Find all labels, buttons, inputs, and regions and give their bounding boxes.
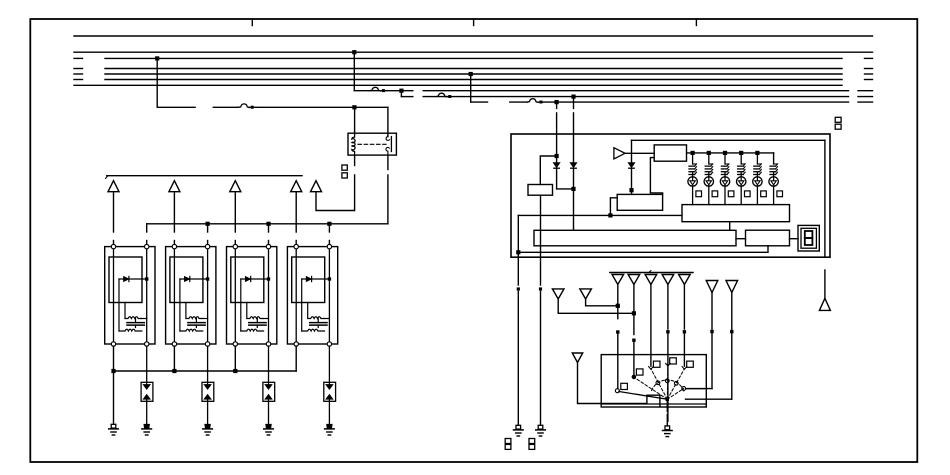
terminal square 4 (670, 358, 677, 364)
connector pair bottom 2 (529, 439, 535, 444)
junction on bus 8 (399, 89, 403, 93)
rail junction (266, 222, 270, 226)
page arrow 2 (628, 275, 640, 285)
junction below D3 (629, 188, 633, 192)
connector arrow 3 (230, 181, 241, 192)
page arrow T10 (572, 353, 582, 363)
left connector bar (106, 176, 108, 178)
relay feed wire seg a (157, 106, 195, 108)
zener box and ground 4 (324, 346, 336, 435)
rail to IC link (610, 198, 617, 216)
terminal square 3 (653, 361, 660, 367)
page arrow 1 (612, 275, 624, 285)
buffer output wire (625, 152, 654, 154)
bottom internal rail (518, 246, 768, 253)
T6 wire (558, 299, 634, 313)
switch ground (665, 426, 670, 430)
bus wire 10 seg c (543, 101, 849, 103)
R1 top wire (540, 156, 556, 185)
junction relay coil (352, 105, 356, 109)
module supply rail (147, 223, 388, 225)
zener box and ground 3 (263, 346, 275, 435)
R6 box (746, 230, 790, 246)
dashed ray (667, 369, 684, 400)
ground G1 (111, 424, 116, 428)
diode D1 (553, 163, 560, 168)
indicator lamp 2 (704, 153, 718, 205)
injector module 2 (166, 244, 216, 346)
bus wire 2 (74, 51, 873, 53)
dashed arc (652, 380, 685, 392)
relay right bottom lead (387, 155, 389, 169)
zener box and ground 1 (141, 346, 153, 435)
cluster ground wire 2 (540, 257, 542, 285)
arrow wire w3 (650, 285, 652, 367)
page arrow T9 (726, 281, 738, 293)
indicator lamp 5 (753, 153, 767, 205)
bus wire 5 right stub (865, 73, 873, 75)
connector arrow 5 (311, 181, 322, 192)
module 4 left pin wire (295, 346, 297, 371)
position contact (656, 381, 660, 385)
feeder junction 4 (739, 151, 743, 155)
rail junction (206, 222, 210, 226)
rail drop wire (268, 224, 270, 232)
relay K1 box (348, 133, 396, 155)
module 2 left pin wire (173, 346, 175, 371)
contact c5 (682, 367, 687, 370)
page arrow T6 (552, 289, 564, 299)
relay internal dashed link (358, 143, 386, 145)
indicator lamp 3 (720, 153, 734, 205)
w2 connector mark (632, 339, 635, 342)
wire below D2 (573, 168, 575, 230)
relay feed wire seg c (256, 106, 388, 108)
bus wire 9 right stub (858, 96, 873, 98)
R1 bottom wire (540, 195, 542, 257)
T9 wire (731, 293, 733, 330)
relay right bottom lead 2 (387, 175, 389, 224)
rail junction (327, 222, 331, 226)
arrow wire w1 (617, 285, 619, 319)
position contact (665, 379, 669, 383)
bus wire 3 left stub (74, 57, 83, 59)
page arrow T8 (706, 281, 718, 293)
ground bus junction 1 (111, 369, 115, 373)
cluster feed wire 2 (573, 97, 575, 109)
ground bus junction 2 (172, 369, 176, 373)
terminal square 5 (687, 361, 694, 367)
switch ground wire (666, 399, 668, 411)
cluster ground wire 1 (517, 257, 519, 285)
IC U1 box (617, 194, 662, 210)
R6-display link (790, 238, 799, 240)
connector arrow 4 (291, 181, 302, 192)
bus 8 jog down (400, 91, 402, 97)
right entry wire (686, 388, 706, 390)
indicator lamp 6 (769, 164, 783, 205)
top border tick 3 (695, 19, 697, 26)
position contact (674, 381, 678, 385)
junction on bus 5 (469, 72, 473, 76)
contact c3 (649, 367, 654, 370)
contact c4 (666, 363, 671, 366)
relay coil wire (354, 107, 356, 134)
digit 8 (805, 231, 813, 238)
ignition switch box (601, 355, 706, 407)
indicator lamp 1 (688, 153, 702, 205)
feeder junction 3 (723, 151, 727, 155)
arrow 2 wire (173, 192, 175, 232)
connector arrow 1 (108, 181, 119, 192)
arrow wire w4 (667, 285, 669, 330)
terminal square 2 (636, 369, 643, 375)
dashed ray (667, 389, 683, 400)
driver R3 box (654, 145, 686, 161)
dashed ray (651, 369, 667, 400)
regulator R1 box (528, 185, 553, 196)
relay switch contact (390, 137, 392, 152)
R4 bottom wire (729, 222, 731, 230)
lamp driver R4 box (682, 205, 790, 222)
ground bus junction 3 (233, 369, 237, 373)
module 1 left pin wire (113, 346, 115, 371)
wire drop from bus 3 (156, 58, 158, 107)
relay coil (352, 134, 355, 154)
fuse on bus wire 9 (436, 93, 447, 97)
injector module 1 (105, 244, 155, 346)
relay left bottom lead 2 (316, 175, 355, 211)
dashed ray (666, 366, 669, 400)
relay left bottom lead (354, 155, 356, 165)
bottom rail junction (516, 250, 520, 254)
lamp feeder wire (687, 152, 774, 154)
diode D3 wire (631, 140, 633, 162)
page arrow T7 (580, 289, 592, 299)
fuse on relay feed (239, 104, 250, 108)
page arrow 5 (679, 275, 691, 285)
arrow wire w4b (667, 334, 669, 422)
wire drop from bus 2 (353, 52, 355, 90)
connector mark w540 (539, 287, 542, 290)
top border tick 1 (251, 19, 253, 26)
internal rail (518, 214, 682, 216)
bus wire 5 left stub (74, 73, 83, 75)
connector arrow 2 (169, 181, 180, 192)
w1 junction (616, 304, 620, 308)
bus wire 4 (105, 68, 842, 70)
rotor arm (619, 392, 667, 400)
bus wire 6 right stub (865, 79, 873, 81)
cluster feed junction (555, 154, 559, 158)
bus wire 7 (74, 84, 842, 86)
page arrow 4 (662, 275, 674, 285)
buffer U2 (614, 148, 625, 159)
cluster feed wire 1 (556, 102, 558, 108)
feeder junction 1 (691, 151, 695, 155)
injector module 3 (227, 244, 277, 346)
T8 wire (711, 293, 713, 330)
position contact (682, 387, 686, 391)
terminal square 1 (621, 383, 628, 389)
T7 wire (586, 299, 618, 306)
bus wire 1 (74, 35, 873, 37)
internal top wire (632, 139, 825, 141)
bus wire 4 right stub (865, 68, 873, 70)
dashed ray (634, 377, 667, 399)
cluster ground 2 (538, 425, 543, 429)
instrument cluster box (511, 134, 830, 257)
junction below D2 (571, 187, 575, 191)
injector module 4 (287, 244, 337, 346)
module 3 left pin wire (234, 346, 236, 371)
junction on bus 2 (352, 50, 356, 54)
feeder junction 5 (755, 151, 759, 155)
feeder junction 2 (707, 151, 711, 155)
w1 connector mark (616, 330, 619, 333)
wire below D1 (556, 168, 558, 189)
main IC R5 box (534, 230, 736, 246)
bus wire 10 seg a (471, 101, 488, 103)
bus wire 4 left stub (74, 68, 83, 70)
cluster output arrow (824, 270, 826, 298)
internal rail drop (517, 215, 519, 257)
arrow 3 wire (234, 192, 236, 232)
connector pair bottom 1 (505, 439, 511, 444)
bus wire 5 (105, 73, 842, 75)
ground bus (114, 370, 297, 372)
rail drop wire (328, 224, 330, 232)
ground lead wire (113, 371, 115, 424)
relay feed wire seg b (213, 106, 238, 108)
junction feed cluster 2 (571, 95, 575, 99)
w2 junction (632, 311, 636, 315)
R5-R6 link (736, 238, 746, 240)
arrow 1 wire (113, 192, 115, 232)
bus wire 8 right stub (858, 90, 873, 92)
internal rail junction (608, 213, 612, 217)
relay switch drop wire (387, 107, 389, 136)
zener box and ground 2 (202, 346, 214, 435)
top border tick 2 (473, 19, 475, 26)
bus wire 6 (105, 79, 842, 81)
T9 connector mark (730, 330, 733, 333)
w5 connector mark (683, 330, 686, 333)
rail corner drop m1 (146, 224, 148, 232)
display inner box (801, 228, 816, 248)
wire below D3 (631, 168, 633, 194)
junction feed cluster 1 (555, 100, 559, 104)
display outer box (798, 225, 819, 251)
bus wire 10 seg b (510, 101, 527, 103)
T10 wire (578, 363, 660, 407)
diode D2 (570, 163, 577, 168)
wire drop from bus 5 (470, 74, 472, 102)
bus wire 6 left stub (74, 79, 83, 81)
bus wire 8 (354, 90, 413, 92)
connector square pair near relay (342, 165, 347, 170)
bus wire 3 right stub (865, 57, 873, 59)
diode D3 (628, 163, 635, 168)
R3 to IC link wire (650, 158, 662, 195)
junction on bus 3 (155, 56, 159, 60)
rail drop wire (207, 224, 209, 232)
T8 connector mark (710, 330, 713, 333)
fuse on bus wire 8 (370, 87, 381, 91)
right connector bar (610, 272, 693, 274)
bus wire 3 (105, 57, 842, 59)
connector square pair top right (835, 117, 841, 122)
page arrow 3 (645, 275, 657, 285)
contact c2 (632, 375, 636, 379)
indicator lamp 4 (737, 153, 751, 205)
connector mark w518 (517, 287, 520, 290)
contact c1 (615, 389, 619, 393)
cluster ground 1 (516, 425, 521, 429)
bus wire 10 right stub (858, 101, 873, 103)
arrow 4 wire (295, 192, 297, 232)
arrow wire w5 (683, 285, 685, 330)
fuse on bus wire 10 (527, 99, 538, 103)
bus wire 9 (423, 96, 848, 98)
w4 connector mark (666, 330, 669, 333)
arrow wire w2 (633, 285, 635, 335)
